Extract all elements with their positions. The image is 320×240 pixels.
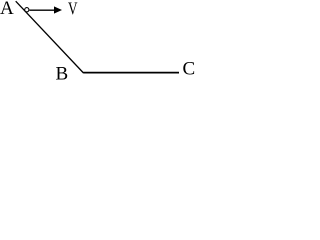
ball at A (circle): [25, 8, 29, 12]
wire incline A-B: [16, 1, 84, 73]
svg-text:V: V: [68, 0, 78, 18]
svg-text:C: C: [183, 59, 196, 80]
wire horizontal B-C: [83, 72, 179, 74]
velocity arrow head: [54, 6, 62, 13]
velocity arrow shaft: [30, 9, 56, 11]
svg-text:B: B: [56, 64, 69, 81]
svg-text:A: A: [0, 0, 14, 19]
